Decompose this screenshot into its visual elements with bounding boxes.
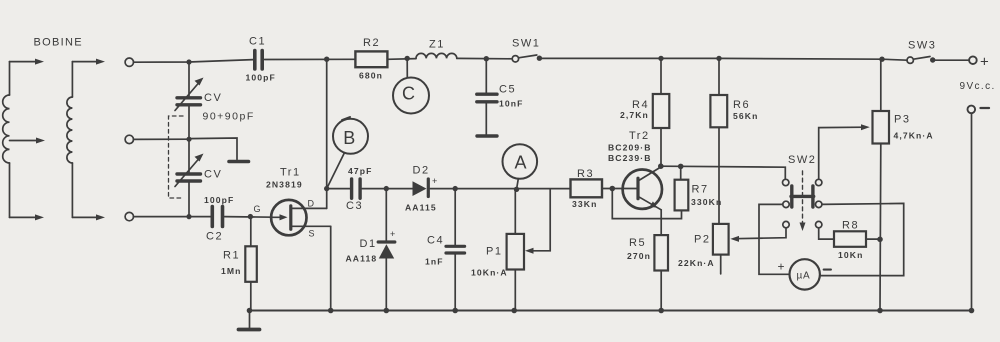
switch SW1 bbox=[512, 38, 542, 63]
capacitor C2 bbox=[204, 195, 234, 243]
node top CV junction bbox=[186, 59, 191, 64]
wire SW1 to SW3 bbox=[542, 58, 907, 60]
resistor R6 bbox=[710, 58, 758, 224]
diode D1 bbox=[346, 189, 396, 311]
node rail P3 bbox=[877, 308, 883, 314]
svg-text:AA118: AA118 bbox=[346, 254, 378, 264]
svg-text:+: + bbox=[390, 229, 395, 239]
wire C3 to D2 bbox=[362, 188, 413, 190]
svg-text:D2: D2 bbox=[413, 165, 430, 177]
svg-text:C: C bbox=[402, 84, 415, 104]
terminal battery plus bbox=[969, 56, 977, 64]
svg-text:D1: D1 bbox=[360, 238, 377, 250]
svg-text:Tr2: Tr2 bbox=[629, 130, 650, 142]
svg-text:C1: C1 bbox=[249, 36, 266, 48]
svg-text:BC239·B: BC239·B bbox=[608, 153, 652, 163]
wire SW2 row3 left to P2 wiper bbox=[730, 228, 786, 242]
svg-text:C3: C3 bbox=[346, 200, 363, 212]
svg-text:1Mn: 1Mn bbox=[221, 266, 242, 276]
svg-text:R1: R1 bbox=[223, 250, 240, 262]
svg-text:47pF: 47pF bbox=[348, 166, 372, 176]
svg-text:B: B bbox=[343, 128, 355, 148]
wire SW3 to + terminal bbox=[935, 59, 969, 61]
svg-text:R3: R3 bbox=[577, 168, 594, 180]
svg-text:22Kn·A: 22Kn·A bbox=[678, 258, 715, 268]
wire drain up to node bbox=[326, 189, 328, 209]
coil L2 bbox=[67, 62, 73, 218]
svg-text:10Kn·A: 10Kn·A bbox=[471, 268, 508, 278]
svg-text:C4: C4 bbox=[427, 235, 444, 247]
wire R2 to Z1 bbox=[387, 58, 416, 61]
terminal bottom-left bbox=[125, 212, 133, 220]
svg-text:AA115: AA115 bbox=[405, 203, 437, 213]
node rail R5 bbox=[658, 308, 664, 314]
gang dashed link bbox=[169, 116, 184, 198]
resistor R4 bbox=[620, 58, 669, 166]
svg-text:P3: P3 bbox=[894, 114, 910, 126]
resistor R1 bbox=[221, 217, 257, 311]
node drain-C3 junction bbox=[324, 186, 329, 191]
svg-text:2N3819: 2N3819 bbox=[266, 180, 303, 190]
svg-text:10Kn: 10Kn bbox=[838, 250, 863, 260]
svg-text:CV: CV bbox=[204, 169, 222, 181]
node C probe junction bbox=[405, 56, 410, 61]
node rail source bbox=[328, 308, 334, 314]
wire R3 to base bbox=[602, 188, 623, 190]
svg-text:R7: R7 bbox=[692, 184, 709, 196]
svg-text:R6: R6 bbox=[733, 99, 750, 111]
svg-text:100pF: 100pF bbox=[204, 195, 234, 205]
svg-text:R8: R8 bbox=[842, 220, 859, 232]
svg-text:A: A bbox=[515, 153, 527, 173]
svg-text:4,7Kn·A: 4,7Kn·A bbox=[894, 131, 934, 141]
svg-text:SW2: SW2 bbox=[788, 154, 816, 166]
svg-text:R5: R5 bbox=[629, 237, 646, 249]
node C4 junction bbox=[453, 186, 458, 191]
node R8 right junction bbox=[877, 237, 883, 243]
svg-text:SW3: SW3 bbox=[908, 40, 936, 52]
node drain branch on top rail bbox=[324, 57, 329, 62]
capacitor C5 bbox=[477, 59, 524, 136]
probe B bbox=[327, 117, 368, 189]
wire L1 bottom arm bbox=[10, 214, 45, 220]
probe A bbox=[503, 144, 538, 189]
resistor R5 bbox=[627, 210, 668, 311]
svg-text:SW1: SW1 bbox=[512, 38, 540, 50]
wire top rail to drain node bbox=[326, 59, 328, 188]
node rail battery bbox=[969, 308, 975, 314]
switch SW2 bbox=[783, 154, 822, 231]
svg-text:Tr1: Tr1 bbox=[280, 167, 301, 179]
svg-text:CV: CV bbox=[204, 92, 222, 104]
capacitor CV2 bbox=[175, 139, 222, 216]
svg-text:R2: R2 bbox=[363, 37, 380, 49]
diode D2 bbox=[405, 165, 437, 213]
svg-text:100pF: 100pF bbox=[246, 72, 276, 82]
svg-text:10nF: 10nF bbox=[499, 99, 523, 109]
resistor R2 bbox=[355, 37, 387, 81]
resistor R8 bbox=[834, 220, 880, 261]
node D1 junction bbox=[384, 186, 389, 191]
wire P3 wiper to SW2 top right bbox=[819, 127, 865, 179]
capacitor CV1 bbox=[175, 62, 255, 139]
terminal middle-left bbox=[125, 135, 133, 143]
ground bar (CV) bbox=[229, 160, 249, 164]
terminal top-left bbox=[125, 58, 133, 66]
node A-P1 junction bbox=[514, 187, 519, 192]
resistor R7 bbox=[612, 166, 722, 218]
wire top rail left bbox=[134, 60, 254, 63]
wire Z1 to SW1 bbox=[457, 57, 512, 59]
wire L1 centre tap bbox=[10, 138, 46, 144]
svg-text:µA: µA bbox=[797, 271, 811, 282]
svg-text:330Kn: 330Kn bbox=[691, 197, 722, 207]
svg-text:P2: P2 bbox=[694, 234, 710, 246]
wire SW2 row2 right loop to meter minus bbox=[821, 203, 904, 275]
node C5 junction bbox=[484, 56, 489, 61]
svg-text:+: + bbox=[980, 54, 989, 71]
node CV middle junction bbox=[186, 137, 191, 142]
svg-text:2,7Kn: 2,7Kn bbox=[620, 110, 649, 120]
wire L2 bottom arm bbox=[72, 214, 105, 220]
wire C2 to gate bbox=[225, 216, 273, 219]
wire L2 top arm bbox=[72, 59, 105, 65]
wire middle terminal to CV junction bbox=[134, 138, 190, 140]
capacitor C1 bbox=[246, 36, 276, 83]
svg-text:+: + bbox=[432, 176, 437, 186]
bottom rail bbox=[250, 310, 972, 312]
node R6 top bbox=[716, 56, 721, 61]
transistor Q1 Tr1 FET bbox=[254, 167, 331, 239]
svg-text:S: S bbox=[309, 229, 315, 239]
svg-text:+: + bbox=[778, 260, 785, 274]
node P3 top bbox=[879, 57, 884, 62]
meter M1 microammeter bbox=[778, 259, 831, 289]
svg-text:C5: C5 bbox=[499, 84, 516, 96]
transistor Q2 Tr2 bbox=[608, 130, 662, 210]
svg-text:P1: P1 bbox=[486, 246, 502, 258]
svg-text:D: D bbox=[308, 199, 315, 209]
svg-text:Z1: Z1 bbox=[429, 39, 445, 51]
coil L1 bbox=[3, 62, 10, 218]
wire source down to rail bbox=[330, 226, 332, 310]
capacitor C4 bbox=[425, 189, 465, 311]
node rail D1 bbox=[384, 308, 390, 314]
wire SW2 row3 right to R8 bbox=[819, 228, 834, 239]
node rail P1 bbox=[511, 308, 517, 314]
node gate-R1 junction bbox=[248, 214, 253, 219]
inductor Z1 bbox=[416, 39, 457, 59]
node R7 top junction bbox=[678, 164, 684, 170]
wire SW2 row2 left to meter plus bbox=[759, 204, 789, 274]
node rail R1 bbox=[247, 308, 253, 314]
wire bottom terminal to C2 bbox=[134, 216, 211, 218]
node rail C4 bbox=[452, 308, 458, 314]
potentiometer P3 bbox=[873, 59, 934, 310]
svg-text:BOBINE: BOBINE bbox=[34, 36, 83, 48]
svg-text:9Vc.c.: 9Vc.c. bbox=[960, 81, 996, 92]
potentiometer P1 bbox=[471, 189, 550, 311]
svg-text:270n: 270n bbox=[627, 251, 651, 261]
svg-text:BC209·B: BC209·B bbox=[608, 143, 652, 153]
ground bbox=[239, 311, 260, 330]
wire collector node to SW2 bbox=[661, 166, 786, 179]
svg-text:G: G bbox=[254, 204, 261, 214]
label minus bbox=[981, 107, 990, 109]
svg-text:56Kn: 56Kn bbox=[733, 111, 758, 121]
potentiometer P2 bbox=[678, 224, 729, 274]
node bottom CV junction bbox=[186, 214, 191, 219]
node base junction bbox=[610, 186, 616, 192]
svg-text:33Kn: 33Kn bbox=[572, 199, 597, 209]
node collector junction bbox=[658, 163, 664, 169]
wire C1 to R2 bbox=[265, 58, 356, 60]
probe C bbox=[393, 58, 429, 113]
svg-text:C2: C2 bbox=[206, 231, 223, 243]
switch SW3 bbox=[907, 40, 936, 64]
wire D2 to R3 bbox=[430, 188, 570, 190]
wire minus terminal to bottom rail bbox=[971, 113, 973, 310]
svg-text:680n: 680n bbox=[359, 71, 383, 81]
terminal battery minus bbox=[968, 106, 976, 114]
capacitor C3 bbox=[327, 166, 373, 212]
svg-text:90+90pF: 90+90pF bbox=[203, 111, 255, 123]
node R4 top bbox=[658, 56, 663, 61]
resistor R3 bbox=[571, 168, 603, 209]
wire CV midpoint to ground bar bbox=[189, 138, 237, 160]
wire L1 top arm bbox=[10, 59, 45, 65]
svg-text:1nF: 1nF bbox=[425, 257, 444, 267]
